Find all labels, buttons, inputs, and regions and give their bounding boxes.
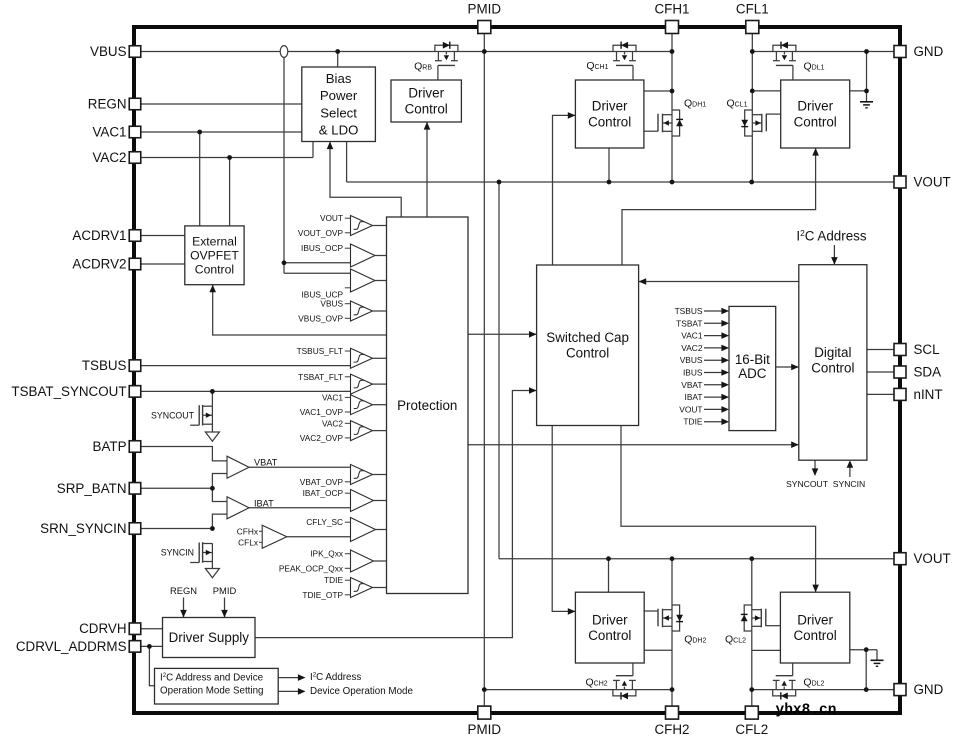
svg-text:16-Bit: 16-Bit <box>735 352 770 367</box>
wire VAC2 to OVPFET <box>229 158 231 226</box>
block Driver Control DL1/CL1 <box>781 80 850 148</box>
transistor Q_DH2 <box>658 605 683 631</box>
block 16-Bit ADC <box>729 306 776 430</box>
svg-text:VAC1: VAC1 <box>93 125 127 140</box>
node VBUS tap ellipse <box>280 46 288 58</box>
svg-text:SDA: SDA <box>914 365 942 380</box>
block I2C Address and Device Operation Mode Setting <box>155 668 279 704</box>
svg-text:QCL1: QCL1 <box>726 98 747 110</box>
node TSBAT tap <box>210 389 215 394</box>
svg-text:Switched Cap: Switched Cap <box>546 330 629 345</box>
transistor Q_DL1 <box>773 42 796 80</box>
pin VBUS <box>129 46 141 58</box>
svg-text:TSBAT_SYNCOUT: TSBAT_SYNCOUT <box>11 384 126 399</box>
wire Bias to VOUT rail <box>346 142 348 183</box>
ground arrow below SYNCOUT fet <box>205 432 219 441</box>
svg-text:CFH1: CFH1 <box>655 2 690 17</box>
svg-text:QDH1: QDH1 <box>684 98 706 110</box>
arrowhead SYNCOUT out <box>812 468 819 476</box>
svg-text:Driver: Driver <box>797 612 833 627</box>
node gnd mid <box>864 89 869 94</box>
svg-text:IBAT: IBAT <box>254 498 274 508</box>
svg-text:TSBUS_FLT: TSBUS_FLT <box>297 346 343 356</box>
svg-text:VBAT: VBAT <box>681 380 702 390</box>
block Switched Cap Control <box>537 265 639 426</box>
wire gnd branch vertical bottom <box>865 650 867 690</box>
op-amp IBAT sense <box>227 497 351 519</box>
wire Protection to Driver Control RB <box>426 122 428 217</box>
wire CFL2 vertical <box>751 559 753 706</box>
pin ACDRV2 <box>129 258 141 270</box>
node GND branch top <box>864 49 869 54</box>
svg-text:Driver: Driver <box>592 99 628 114</box>
wire ACDRV2 wire <box>141 263 185 265</box>
svg-text:OVPFET: OVPFET <box>190 248 239 262</box>
svg-text:& LDO: & LDO <box>319 123 359 138</box>
node VAC2 tap <box>227 155 232 160</box>
block Driver Control DL2/CL2 <box>780 592 849 663</box>
svg-text:Control: Control <box>195 262 234 276</box>
svg-text:VBUS_OVP: VBUS_OVP <box>298 313 343 323</box>
wire SCC to Driver Control CH1 <box>553 115 576 265</box>
wire QCL1 gate to DL1 driver <box>766 113 781 115</box>
node CFH1 VOUT <box>670 180 675 185</box>
wire gnd branch vertical top <box>866 52 868 91</box>
svg-text:Driver Supply: Driver Supply <box>169 630 250 645</box>
wire I2C Address arrow line <box>833 245 835 265</box>
svg-text:Control: Control <box>794 628 837 643</box>
svg-text:TSBAT_FLT: TSBAT_FLT <box>298 372 343 382</box>
svg-text:GND: GND <box>914 682 944 697</box>
wire SCC to Driver Control CH2 <box>552 426 575 612</box>
svg-text:REGN: REGN <box>88 97 127 112</box>
wire PMID vertical <box>483 34 485 707</box>
node CFL1 VOUT <box>749 180 754 185</box>
node CH1 drv VOUT <box>607 180 612 185</box>
pin TSBAT_SYNCOUT <box>129 386 141 398</box>
wire CDRVL wire <box>141 645 163 647</box>
wire SRP_BATN wire <box>141 487 213 489</box>
wire CFL1 to DL1 driver <box>752 90 780 92</box>
wire nINT wire <box>867 393 894 395</box>
svg-text:TSBAT: TSBAT <box>676 318 702 328</box>
pin GND right <box>894 684 906 696</box>
arrowhead into DL1 driver bottom <box>812 148 819 156</box>
wire VAC2 wire <box>141 157 314 159</box>
svg-text:VBUS: VBUS <box>90 44 127 59</box>
svg-text:VAC1_OVP: VAC1_OVP <box>300 407 344 417</box>
block Driver Control QRB <box>391 80 461 122</box>
transistor Q_CL1 <box>741 110 766 136</box>
wire PMID bottom rail <box>484 689 672 691</box>
wire Protection to Digital Control <box>468 444 799 446</box>
pin PMID top <box>478 21 491 34</box>
block Protection <box>387 217 469 594</box>
svg-text:QCH1: QCH1 <box>586 60 608 72</box>
svg-text:VBUS: VBUS <box>320 299 343 309</box>
svg-text:Control: Control <box>588 114 631 129</box>
arrowhead into CH1 driver left <box>568 112 576 119</box>
wire VBUS/PMID top rail <box>141 51 673 53</box>
svg-text:QCL2: QCL2 <box>725 633 746 645</box>
node CH2 drv VOUT <box>606 556 611 561</box>
svg-text:PMID: PMID <box>213 585 237 596</box>
wire DL2 driver to gnd branch <box>850 649 877 651</box>
wire CH1 driver to QDH1 gate <box>644 130 658 132</box>
transistor Q_DL2 <box>773 663 796 700</box>
node CFH1 top <box>670 49 675 54</box>
ground bottom right <box>871 660 884 666</box>
node SRN tap <box>210 526 215 531</box>
pin GND right <box>894 46 906 58</box>
node CFL2 VOUT <box>749 556 754 561</box>
wire REGN wire <box>141 103 302 105</box>
svg-text:SYNCIN: SYNCIN <box>161 548 194 558</box>
svg-text:CFHx: CFHx <box>237 526 259 536</box>
arrowhead into SCC left <box>529 331 537 338</box>
wire VAC1 to OVPFET <box>199 132 201 226</box>
transistor Q_CH2 <box>613 663 636 700</box>
wire SRN up branch <box>212 514 227 528</box>
svg-text:TDIE: TDIE <box>683 417 702 427</box>
wire VOUT bottom rail <box>499 558 894 560</box>
comparator VOUT_OVP <box>298 213 387 238</box>
wire I2C Address out <box>278 677 299 679</box>
wire CFH1 vertical <box>671 34 673 183</box>
op-amp VBAT sense <box>227 456 351 478</box>
arrowhead into Bias bottom <box>327 142 334 150</box>
svg-text:CFL2: CFL2 <box>735 722 768 737</box>
pin SRP_BATN <box>129 483 141 495</box>
wire QCL2 gate to DL2 driver <box>767 625 781 627</box>
node CFL2 bottom <box>749 687 754 692</box>
svg-text:IBAT: IBAT <box>685 392 703 402</box>
svg-text:ACDRV1: ACDRV1 <box>72 228 126 243</box>
pin BATP <box>129 441 141 453</box>
svg-text:VAC2: VAC2 <box>93 150 127 165</box>
wire VBUS to Bias <box>337 52 339 68</box>
svg-text:ADC: ADC <box>738 366 767 381</box>
svg-text:IBAT_OCP: IBAT_OCP <box>303 488 344 498</box>
svg-text:Operation Mode Setting: Operation Mode Setting <box>160 686 263 697</box>
wire Protection to Bias <box>330 142 401 218</box>
block Driver Control CH2/DH2 <box>575 592 644 663</box>
pin CFL2 bottom <box>745 706 758 719</box>
pin CDRVL_ADDRMS <box>129 641 141 653</box>
wire CFH2 vertical <box>671 559 673 706</box>
svg-text:TDIE_OTP: TDIE_OTP <box>302 590 343 600</box>
svg-text:I2C Address: I2C Address <box>310 672 361 683</box>
svg-text:GND: GND <box>914 44 944 59</box>
transistor Q_DH1 <box>658 110 683 136</box>
node CFL1 top <box>750 49 755 54</box>
wire SCC to Driver Control DL2 <box>621 426 816 593</box>
comparator VAC1_OVP <box>300 392 387 417</box>
ground arrow below SYNCIN fet <box>205 569 219 578</box>
svg-text:VOUT: VOUT <box>679 404 702 414</box>
wire VBUS to IBUS_OCP input <box>284 262 351 264</box>
wire SYNCIN arrow line <box>849 466 851 477</box>
wire SRN_SYNCIN wire <box>141 528 213 530</box>
node CFH2 bottom <box>670 687 675 692</box>
wire SYNCOUT arrow line <box>814 460 816 469</box>
pin VOUT right <box>894 176 906 188</box>
pin VOUT right <box>894 553 906 565</box>
svg-text:QDH2: QDH2 <box>684 633 706 645</box>
wire SRP branch wires <box>212 474 227 502</box>
wire GND bottom rail <box>752 689 894 691</box>
arrowhead into RB driver bottom <box>424 122 431 130</box>
svg-text:Protection: Protection <box>397 398 457 413</box>
wire Driver Supply to SCC <box>255 391 537 638</box>
wire VOUT top rail <box>347 181 894 183</box>
wire CH2 driver to QDH2 gate <box>644 610 658 612</box>
svg-text:SCL: SCL <box>914 342 940 357</box>
svg-text:VAC1: VAC1 <box>322 392 343 402</box>
svg-text:Control: Control <box>566 345 609 360</box>
svg-text:VAC2_OVP: VAC2_OVP <box>300 433 344 443</box>
comparator IBUS_OCP <box>301 243 386 267</box>
wire SYNCIN fet channel wire <box>211 543 213 568</box>
wire VBUS to IBUS_UCP input <box>284 272 351 274</box>
svg-text:VOUT: VOUT <box>320 213 343 223</box>
block Digital Control <box>799 265 867 461</box>
svg-text:VOUT: VOUT <box>914 175 951 190</box>
svg-text:Power: Power <box>320 88 358 103</box>
wire GND top rail <box>752 51 894 53</box>
svg-text:I2C Address and Device: I2C Address and Device <box>160 672 264 683</box>
wire gnd stub bottom <box>876 650 878 661</box>
arrowhead into CH2 driver left <box>568 608 576 615</box>
svg-text:PEAK_OCP_Qxx: PEAK_OCP_Qxx <box>279 563 344 573</box>
wire Protection to OVPFET ctl <box>213 285 387 335</box>
comparator VBAT_OVP <box>300 465 387 487</box>
wire CFL2 to DL2 driver <box>752 649 781 651</box>
svg-text:QDL2: QDL2 <box>803 676 824 688</box>
svg-text:PMID: PMID <box>468 2 502 17</box>
svg-text:PMID: PMID <box>468 722 502 737</box>
wire CFL1 vertical <box>751 34 753 183</box>
svg-text:Digital: Digital <box>814 345 851 360</box>
svg-text:SRN_SYNCIN: SRN_SYNCIN <box>40 521 126 536</box>
transistor Q_CL2 <box>741 605 766 631</box>
wire SDA wire <box>867 371 894 373</box>
svg-text:Select: Select <box>320 105 357 120</box>
svg-text:IBUS: IBUS <box>683 368 703 378</box>
wire CH1 driver to VOUT rail <box>608 148 610 182</box>
svg-text:nINT: nINT <box>914 387 943 402</box>
node CFL1 driver <box>750 89 755 94</box>
arrowhead into DL2 driver top <box>812 585 819 593</box>
arrowhead into Digital Control left <box>791 441 799 448</box>
block Bias Power Select LDO <box>302 67 376 142</box>
svg-text:TSBUS: TSBUS <box>82 358 127 373</box>
svg-text:SYNCIN: SYNCIN <box>833 479 865 489</box>
svg-text:Control: Control <box>794 114 837 129</box>
transistor SYNCIN switch <box>190 542 212 563</box>
svg-text:REGN: REGN <box>170 585 197 596</box>
wire BATP wire <box>141 447 228 461</box>
comparator TSBUS_FLT <box>297 346 387 368</box>
arrowhead into SCC left 2 <box>529 387 537 394</box>
node GND branch bottom <box>864 687 869 692</box>
svg-text:Driver: Driver <box>592 612 628 627</box>
svg-text:VBAT: VBAT <box>254 458 278 468</box>
wire DL1 driver to gnd branch <box>850 90 867 92</box>
wire VBUS sense vertical <box>283 57 285 273</box>
wire PMID into Driver Supply <box>224 598 226 618</box>
arrowhead into SCC right <box>639 278 647 285</box>
svg-text:VBUS: VBUS <box>680 355 703 365</box>
wire Device Operation Mode out <box>278 690 299 692</box>
comparator CFLY_SC <box>306 517 386 541</box>
pin SRN_SYNCIN <box>129 523 141 535</box>
pin ACDRV1 <box>129 230 141 242</box>
node VOUT link <box>497 180 502 185</box>
wire VAC2 riser to Bias <box>312 142 314 158</box>
svg-text:SRP_BATN: SRP_BATN <box>57 481 127 496</box>
comparator VBUS_OVP <box>298 299 386 324</box>
pin TSBUS <box>129 360 141 372</box>
arrowhead into Digital Control from ADC <box>791 364 799 371</box>
svg-text:Bias: Bias <box>326 71 352 86</box>
wire SCC to Driver Control DL1 <box>622 148 816 265</box>
wire gnd stub top <box>866 91 868 102</box>
svg-text:VAC2: VAC2 <box>322 418 343 428</box>
svg-text:SYNCOUT: SYNCOUT <box>786 479 829 489</box>
node CDRVL tap <box>147 644 152 649</box>
arrowhead into OVPFET bottom <box>209 285 216 293</box>
block Driver Supply <box>163 618 256 658</box>
wire TSBAT wire <box>141 390 351 392</box>
svg-text:SYNCOUT: SYNCOUT <box>151 410 195 420</box>
pin VAC1 <box>129 126 141 138</box>
svg-text:Control: Control <box>405 101 448 116</box>
node VBUS sense tap <box>282 260 287 265</box>
svg-text:BATP: BATP <box>93 439 127 454</box>
svg-text:TDIE: TDIE <box>324 575 343 585</box>
svg-text:IBUS_OCP: IBUS_OCP <box>301 243 343 253</box>
comparator CFHx CFLx <box>237 525 351 548</box>
svg-text:I2C Address: I2C Address <box>796 228 866 243</box>
wire REGN into Driver Supply <box>183 598 185 618</box>
wire CDRVH wire <box>141 628 163 630</box>
comparator TSBAT_FLT <box>298 372 386 394</box>
svg-text:VAC1: VAC1 <box>681 331 703 341</box>
node VBUS-PMID <box>482 49 487 54</box>
comparator IBAT_OCP <box>303 488 387 511</box>
svg-text:CFH2: CFH2 <box>655 722 690 737</box>
comparator VAC2_OVP <box>300 418 387 443</box>
wire ACDRV1 wire <box>141 235 185 237</box>
wire CDRVL to I2C box <box>149 646 154 685</box>
transistor Q_RB <box>435 42 458 80</box>
chip outline border <box>134 27 900 713</box>
wire CH2 driver to VOUT rail <box>608 559 610 593</box>
comparator PEAK_OCP <box>279 549 387 574</box>
node gnd mid bottom <box>864 647 869 652</box>
pin PMID bottom <box>478 706 491 719</box>
svg-text:VAC2: VAC2 <box>681 343 703 353</box>
comparator TDIE_OTP <box>302 575 386 600</box>
arrowhead into Digital Control top <box>831 257 838 265</box>
wire Protection to SCC <box>468 333 537 335</box>
node CFH2 VOUT <box>670 556 675 561</box>
block External OVPFET Control <box>185 226 244 285</box>
pin SCL right <box>894 344 906 356</box>
svg-text:QRB: QRB <box>414 61 432 73</box>
svg-text:ybx8.cn: ybx8.cn <box>776 702 837 718</box>
pin REGN <box>129 98 141 110</box>
node CFH1 driver <box>670 89 675 94</box>
transistor Q_CH1 <box>613 42 636 80</box>
svg-text:Driver: Driver <box>797 99 833 114</box>
wire VOUT link vertical <box>498 182 500 559</box>
pin VAC2 <box>129 152 141 164</box>
pin CFH1 top <box>666 21 679 34</box>
svg-text:CFL1: CFL1 <box>736 2 769 17</box>
svg-text:ACDRV2: ACDRV2 <box>72 257 126 272</box>
svg-text:VOUT_OVP: VOUT_OVP <box>298 228 344 238</box>
svg-text:QCH2: QCH2 <box>586 676 608 688</box>
block Driver Control CH1/DH1 <box>575 80 644 148</box>
wire TSBUS wire <box>141 365 351 367</box>
pin CFH2 bottom <box>666 706 679 719</box>
svg-text:CDRVH: CDRVH <box>79 621 126 636</box>
arrowhead into Digital Control bottom SYNCIN <box>847 460 854 468</box>
svg-text:CFLY_SC: CFLY_SC <box>306 517 343 527</box>
svg-text:Device Operation Mode: Device Operation Mode <box>310 686 413 697</box>
svg-text:TSBUS: TSBUS <box>675 306 703 316</box>
svg-text:Control: Control <box>588 628 631 643</box>
wire SYNCOUT fet channel wire <box>211 391 213 432</box>
wire CH2 driver to CFH2 <box>644 649 672 651</box>
pin nINT right <box>894 388 906 400</box>
svg-text:External: External <box>192 234 237 248</box>
pin CDRVH <box>129 623 141 635</box>
ground top right <box>860 102 873 108</box>
svg-text:VOUT: VOUT <box>914 551 951 566</box>
wire CH1 driver to CFH1 <box>644 90 672 92</box>
wire ADC to Digital Control <box>776 366 799 368</box>
node VAC1 tap <box>197 130 202 135</box>
svg-text:VBAT_OVP: VBAT_OVP <box>300 477 344 487</box>
node SRP tap <box>210 486 215 491</box>
transistor SYNCOUT switch <box>190 405 212 426</box>
svg-text:CFLx: CFLx <box>238 537 259 547</box>
svg-text:IPK_Qxx: IPK_Qxx <box>310 549 344 559</box>
node VBUS-Bias <box>335 49 340 54</box>
pin SDA right <box>894 366 906 378</box>
wire VAC1 wire <box>141 131 302 133</box>
pin CFL1 top <box>746 21 759 34</box>
svg-text:QDL1: QDL1 <box>804 61 825 73</box>
wire SCL wire <box>867 349 894 351</box>
svg-text:Control: Control <box>811 360 854 375</box>
wire Digital Control to SCC <box>639 281 799 283</box>
svg-text:CDRVL_ADDRMS: CDRVL_ADDRMS <box>16 639 127 654</box>
node PMID bottom <box>482 687 487 692</box>
comparator IBUS_UCP <box>351 269 387 292</box>
svg-text:Driver: Driver <box>408 86 444 101</box>
